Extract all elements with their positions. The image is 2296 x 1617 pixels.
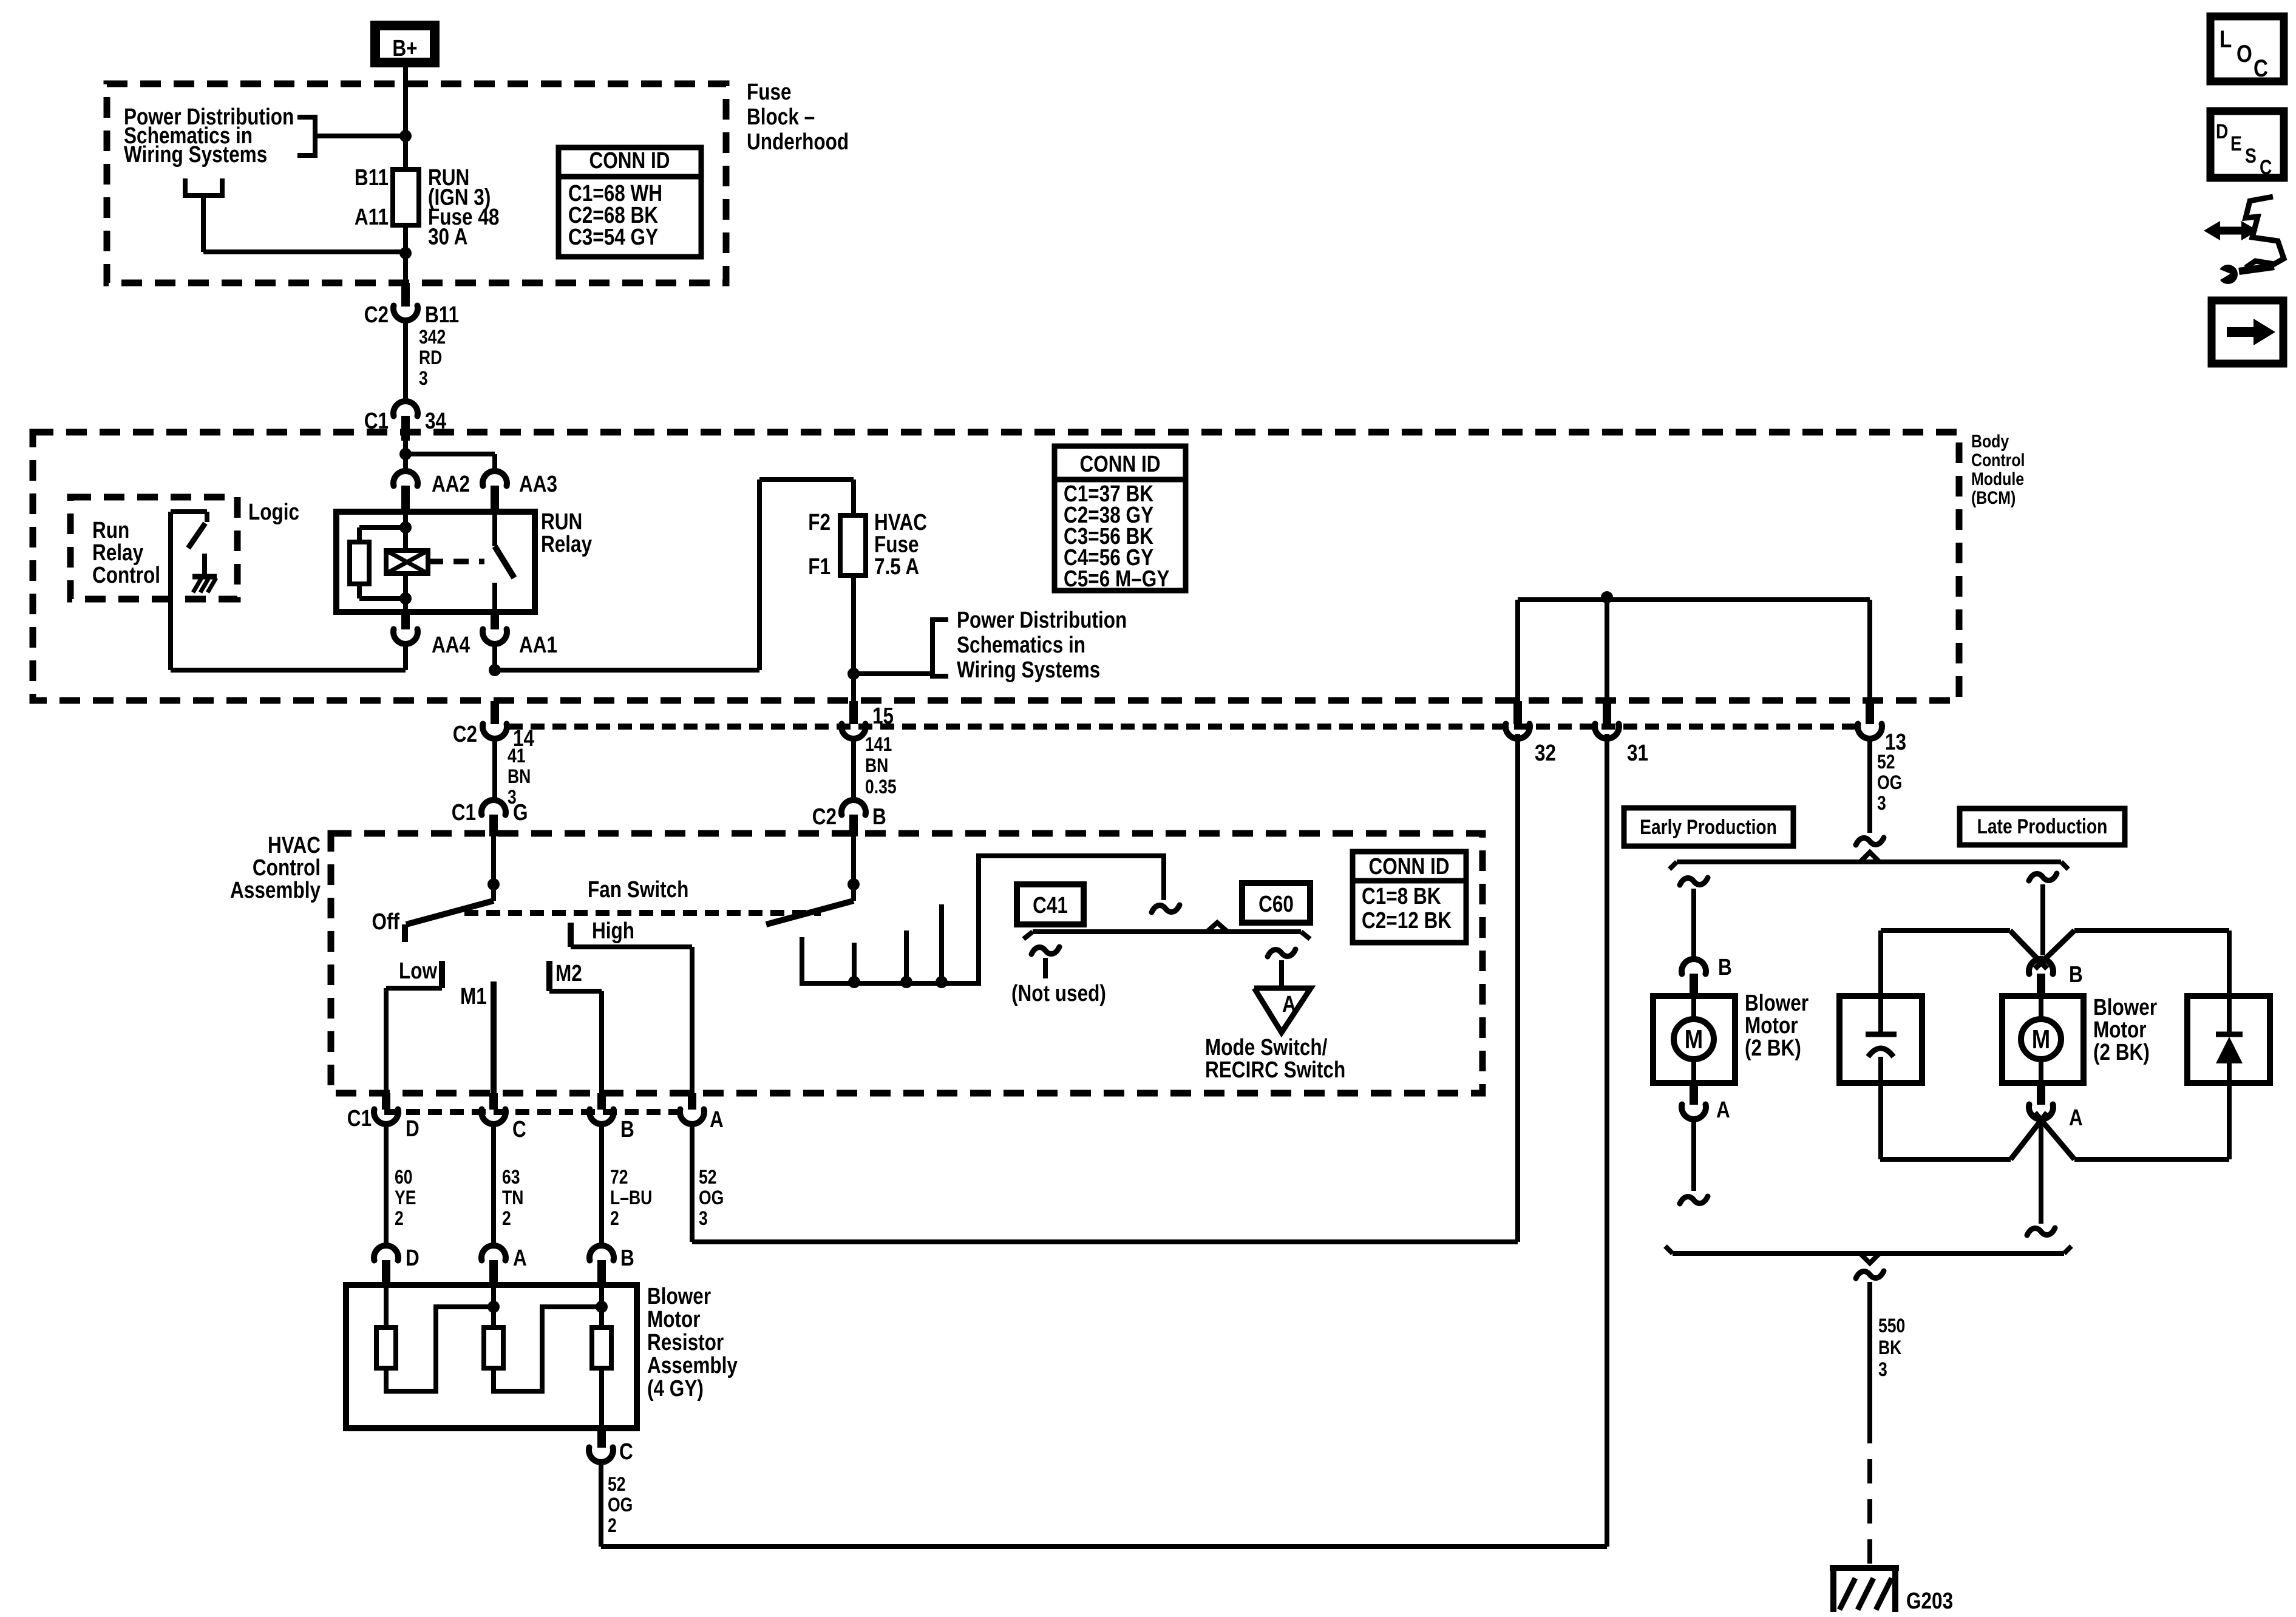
svg-text:3: 3 [699, 1208, 708, 1230]
svg-text:D: D [406, 1245, 419, 1270]
svg-text:A: A [1716, 1097, 1730, 1122]
capacitor box (noise suppressor) [1839, 996, 1922, 1083]
run relay box [336, 512, 535, 612]
svg-text:Resistor: Resistor [647, 1329, 724, 1355]
svg-text:L: L [2220, 25, 2232, 53]
connector C1 terminal C [481, 1093, 506, 1124]
wire late A crossover [1880, 1113, 2229, 1159]
pin label C2 (B11 connector) [364, 302, 389, 327]
svg-text:C41: C41 [1033, 892, 1068, 918]
label RUN (IGN 3) Fuse 48 30 A [428, 164, 499, 249]
pin label 13 [1885, 729, 1906, 754]
wire label 52 OG 3 (pin A) [699, 1167, 724, 1230]
svg-text:F1: F1 [808, 554, 830, 579]
svg-text:C2=12 BK: C2=12 BK [1362, 907, 1452, 933]
wire label 52 OG 2 [608, 1474, 633, 1537]
label Fan Switch [588, 876, 688, 902]
svg-text:15: 15 [872, 703, 894, 728]
svg-text:C3=54 GY: C3=54 GY [568, 224, 658, 249]
wire capacitor bottom [1878, 1057, 1883, 1159]
wire coil bottom [403, 574, 408, 612]
relay switch blade (open) [495, 546, 514, 578]
relay switch contact AA3 side [492, 513, 497, 546]
connector C1 terminal A [680, 1093, 704, 1124]
svg-text:(2 BK): (2 BK) [1745, 1035, 1801, 1060]
pin label 15 [872, 703, 894, 728]
pigtail mode switch [1268, 949, 1296, 986]
pin label 32 [1535, 740, 1556, 765]
svg-text:C: C [2260, 156, 2272, 179]
connector terminal 31 [1595, 701, 1619, 739]
wire branch to AA3 [406, 454, 495, 469]
svg-text:Assembly: Assembly [230, 877, 321, 903]
label Blower Motor (2 BK) early [1745, 990, 1809, 1060]
pin label F2 [808, 509, 830, 535]
wire logic to AA4 [171, 644, 406, 670]
wire AA2 to relay coil [403, 513, 408, 551]
pin label B (late motor) [2069, 961, 2083, 987]
svg-text:B11: B11 [425, 302, 459, 327]
label Blower Motor Resistor Assembly (4 GY) [647, 1283, 738, 1401]
contact Low [439, 961, 445, 988]
svg-text:C1: C1 [452, 799, 476, 825]
svg-text:TN: TN [502, 1187, 523, 1209]
label Fuse Block - Underhood [747, 79, 849, 154]
connector terminal 32 [1506, 701, 1530, 739]
node junction AA1 branch [489, 664, 501, 676]
svg-text:C5=6 M–GY: C5=6 M–GY [1064, 566, 1169, 591]
wire label 41 BN 3 [508, 745, 531, 808]
svg-text:3: 3 [1877, 793, 1886, 815]
svg-text:(4 GY): (4 GY) [647, 1375, 704, 1401]
wire break tilde (ground collector) [1856, 1271, 1884, 1278]
label Off [372, 909, 399, 934]
relay actuation dashed link [428, 559, 484, 564]
connector terminal B (resistor) [589, 1246, 614, 1285]
node junction B+ feed [399, 130, 412, 142]
wire break tilde (late motor ground) [2027, 1228, 2055, 1235]
label Blower Motor (2 BK) late [2093, 994, 2157, 1065]
svg-text:A: A [1282, 991, 1296, 1017]
svg-text:A: A [2069, 1105, 2083, 1130]
node junction relay feed [399, 448, 412, 460]
fuse HVAC 7.5A [840, 515, 866, 575]
svg-text:D: D [2216, 120, 2228, 143]
connector tag C41 [1017, 884, 1084, 924]
svg-text:52: 52 [699, 1167, 717, 1188]
svg-text:B: B [1718, 954, 1732, 980]
connector C2 cavity B11 (fuse block side) [393, 283, 418, 320]
svg-text:52: 52 [608, 1474, 626, 1496]
pigtail not used [1031, 947, 1059, 978]
svg-text:Motor: Motor [647, 1306, 701, 1332]
fan switch pole 1 blade [406, 901, 494, 924]
icon vehicle service (arrow and wrench) [2204, 197, 2284, 284]
pin label C1 (hvac) [347, 1105, 372, 1131]
fan switch dashed position line [464, 910, 821, 916]
connector terminal B (early motor) [1682, 959, 1706, 996]
pin label A (hvac) [710, 1107, 724, 1132]
connector terminal 13 [1858, 701, 1882, 739]
resistor R3 (med2) [592, 1285, 611, 1428]
pin label C2 (14) [453, 721, 477, 747]
svg-text:M: M [2032, 1024, 2050, 1054]
pin label A (late motor) [2069, 1105, 2083, 1130]
svg-text:550: 550 [1878, 1315, 1905, 1337]
motor symbol M (early) [1674, 996, 1714, 1083]
ground symbol (logic) [192, 554, 217, 592]
connector terminal A (early motor) [1682, 1083, 1706, 1119]
wire 63 TN 2 [491, 1124, 496, 1246]
svg-text:CONN ID: CONN ID [589, 147, 670, 173]
label High [592, 918, 634, 943]
svg-text:Blower: Blower [647, 1283, 711, 1309]
bracket to power distribution schematics (top) [297, 117, 406, 155]
svg-text:Off: Off [372, 909, 399, 934]
svg-text:AA2: AA2 [432, 471, 470, 497]
svg-text:Assembly: Assembly [647, 1352, 738, 1378]
svg-text:Module: Module [1971, 469, 2024, 489]
svg-text:OG: OG [699, 1187, 724, 1209]
fan switch 2 position comb [802, 856, 1164, 988]
svg-text:60: 60 [395, 1167, 413, 1188]
wire 52 OG 3 from pin 13 [1867, 739, 1872, 833]
hvac connector row dotted line [384, 1109, 678, 1115]
svg-text:Fuse: Fuse [747, 79, 792, 104]
wire 34 into BCM [403, 441, 408, 469]
contact M1 wire to pin C [491, 981, 497, 1095]
svg-text:RECIRC Switch: RECIRC Switch [1205, 1057, 1345, 1082]
relay coil suppression resistor [350, 527, 406, 598]
blower motor box (early) [1653, 996, 1735, 1083]
connector C2 terminal 14 [483, 701, 507, 739]
svg-text:F2: F2 [808, 509, 830, 535]
svg-text:(2 BK): (2 BK) [2093, 1039, 2150, 1065]
node junction coil top [399, 521, 412, 534]
wire 550 BK 3 dashed continuation [1867, 1419, 1872, 1565]
label (Not used) [1011, 980, 1106, 1006]
label RUN Relay [541, 509, 593, 557]
wire AA1 down [492, 644, 497, 670]
svg-text:3: 3 [419, 368, 428, 390]
svg-text:AA3: AA3 [519, 471, 557, 497]
node junction pin 31 bus [1601, 591, 1613, 603]
svg-text:YE: YE [395, 1187, 416, 1209]
label M1 [460, 983, 487, 1009]
svg-text:2: 2 [608, 1515, 617, 1537]
table CONN ID (BCM) [1055, 446, 1186, 592]
connector terminal B (late motor) [2029, 959, 2053, 996]
wire AA1 to HVAC fuse [495, 480, 854, 670]
pin label D [406, 1116, 419, 1141]
logic switch (run relay control) [171, 512, 207, 670]
svg-text:Relay: Relay [541, 531, 593, 557]
svg-text:B: B [620, 1116, 634, 1142]
svg-text:Control: Control [1971, 450, 2025, 470]
svg-text:M2: M2 [555, 960, 582, 986]
svg-text:2: 2 [502, 1208, 511, 1230]
svg-text:S: S [2245, 144, 2257, 168]
svg-text:BK: BK [1878, 1337, 1901, 1359]
node junction coil bottom [399, 592, 412, 605]
svg-text:Underhood: Underhood [747, 129, 849, 154]
connector AA3 (run relay) [483, 471, 507, 513]
svg-text:30 A: 30 A [428, 224, 467, 249]
tag Early Production [1624, 808, 1793, 846]
svg-text:B11: B11 [355, 164, 389, 190]
ground G203 symbol [1830, 1565, 1899, 1612]
resistor R1 (low) [376, 1285, 494, 1391]
svg-text:41: 41 [508, 745, 526, 767]
connector terminal C (resistor out) [589, 1428, 613, 1462]
svg-text:High: High [592, 918, 634, 943]
svg-text:CONN ID: CONN ID [1079, 451, 1160, 476]
svg-text:0.35: 0.35 [865, 776, 897, 798]
wire label 63 TN 2 [502, 1167, 523, 1230]
pin label AA2 [432, 471, 470, 497]
svg-text:OG: OG [608, 1494, 633, 1516]
connector C2 terminal 15 [841, 701, 866, 739]
svg-text:Fan Switch: Fan Switch [588, 876, 688, 902]
wire M2 to pin B [549, 991, 602, 1095]
wire early motor ground [1691, 1119, 1696, 1191]
svg-text:Power Distribution: Power Distribution [957, 607, 1127, 632]
label M2 [555, 960, 582, 986]
svg-text:7.5 A: 7.5 A [874, 554, 919, 579]
pin label C (resistor out) [619, 1439, 633, 1464]
pin label G [513, 799, 528, 825]
fan switch pole 2 blade [766, 901, 854, 924]
svg-text:M: M [1685, 1024, 1703, 1054]
label Power Distribution Schematics in Wiring Systems (fuse block) [124, 104, 294, 167]
label Run Relay Control [92, 517, 160, 588]
capacitor symbol [1866, 1034, 1897, 1057]
connector tag C60 [1242, 883, 1310, 923]
wire label 52 OG 3 (pin 13) [1877, 751, 1902, 815]
label Low [399, 958, 438, 983]
svg-text:B: B [620, 1245, 634, 1270]
wire B+ to fuse B11 [403, 67, 408, 169]
wire label 60 YE 2 [395, 1167, 416, 1230]
wire 72 L-BU 2 [599, 1124, 604, 1246]
svg-text:2: 2 [395, 1208, 404, 1230]
svg-text:32: 32 [1535, 740, 1556, 765]
svg-text:342: 342 [419, 327, 446, 348]
svg-text:(BCM): (BCM) [1971, 487, 2016, 508]
svg-text:AA4: AA4 [432, 632, 470, 657]
BCM connector row dotted line [509, 724, 1856, 730]
svg-text:Control: Control [92, 562, 160, 588]
wire label 342 RD 3 [419, 327, 446, 390]
wire B into fan switch 2 [851, 836, 856, 901]
svg-text:3: 3 [1878, 1359, 1887, 1381]
node junction fan switch 1 [487, 878, 500, 890]
pin label AA4 [432, 632, 470, 657]
connector terminal D (resistor) [374, 1246, 398, 1285]
fuse block underhood dashed box [107, 84, 726, 283]
svg-text:Low: Low [399, 958, 438, 983]
svg-text:Wiring Systems: Wiring Systems [124, 141, 267, 167]
wire G into fan switch [491, 836, 496, 901]
hvac control assembly dashed box [331, 833, 1483, 1093]
wire HVAC fuse output [851, 575, 856, 701]
node junction fan switch 2 [847, 878, 860, 890]
ground label G203 [1906, 1588, 1953, 1613]
pigtail late production feed [2029, 873, 2057, 955]
wire 52 OG 2 [599, 1462, 603, 1547]
contact High [568, 923, 574, 947]
pin label 31 [1627, 740, 1648, 765]
svg-text:D: D [406, 1116, 419, 1141]
wire 141 BN 0.35 [851, 739, 856, 800]
svg-text:A: A [513, 1245, 527, 1270]
svg-text:C2: C2 [812, 804, 837, 829]
wire break tilde (early motor ground) [1680, 1196, 1708, 1204]
wire diode bottom [2227, 1063, 2232, 1159]
wire 41 BN 3 [492, 739, 497, 800]
power symbol B+ (battery positive) [375, 25, 435, 63]
svg-text:CONN ID: CONN ID [1368, 853, 1449, 879]
svg-text:141: 141 [865, 734, 892, 756]
svg-text:Block –: Block – [747, 104, 815, 129]
svg-text:B+: B+ [392, 35, 417, 61]
blower motor box (late) [2002, 996, 2084, 1083]
svg-text:2: 2 [610, 1208, 619, 1230]
pin label AA1 [519, 632, 557, 657]
contact Off [402, 924, 408, 942]
wire late motor ground [2039, 1120, 2043, 1224]
pin label D (resistor) [406, 1245, 419, 1270]
pin label F1 [808, 554, 830, 579]
table CONN ID (fuse block) [559, 147, 701, 257]
resistor R2 (med1) [484, 1285, 602, 1391]
pin label 34 [425, 408, 447, 433]
fuse RUN (IGN 3) Fuse 48 30A [393, 169, 419, 225]
label Power Distribution Schematics in Wiring Systems (BCM) [957, 607, 1127, 682]
label HVAC Control Assembly [230, 832, 321, 903]
wire 342 RD 3 [403, 320, 408, 401]
wire diode top [2227, 931, 2232, 1032]
pin label B11 (connector) [425, 302, 459, 327]
svg-text:B: B [2069, 961, 2083, 987]
svg-text:Wiring Systems: Wiring Systems [957, 657, 1100, 682]
bracket to power distribution schematics (bottom) [185, 178, 406, 252]
wire Low to pin D [386, 988, 442, 1095]
pin label B (fan switch) [872, 804, 886, 829]
pin label A (resistor) [513, 1245, 527, 1270]
wire 550 BK 3 [1867, 1282, 1872, 1419]
svg-text:AA1: AA1 [519, 632, 557, 657]
pin label A11 [355, 204, 389, 229]
wire BCM output bus [1518, 600, 1870, 701]
node junction fuse input [399, 247, 412, 259]
connector terminal A (resistor) [481, 1246, 506, 1285]
svg-text:C2: C2 [453, 721, 477, 747]
svg-text:C: C [2254, 55, 2268, 82]
bracket to power distribution schematics (BCM) [854, 620, 948, 676]
wire break tilde (52 OG 3 feed) [1856, 838, 1884, 845]
relay switch contact AA1 side [492, 583, 497, 612]
svg-text:G: G [513, 799, 528, 825]
wire break tilde (fan switch comb) [1152, 905, 1180, 912]
connector terminal A (late motor) [2029, 1083, 2053, 1119]
svg-text:M1: M1 [460, 983, 487, 1009]
svg-text:C1: C1 [347, 1105, 372, 1131]
pigtail early production feed [1680, 878, 1708, 957]
pin label C [512, 1116, 526, 1142]
svg-text:O: O [2237, 40, 2252, 67]
pin label A (early motor) [1716, 1097, 1730, 1122]
svg-text:L–BU: L–BU [610, 1187, 652, 1209]
motor symbol M (late) [2021, 996, 2061, 1083]
svg-text:C: C [619, 1439, 633, 1464]
svg-text:RD: RD [419, 347, 442, 369]
svg-text:63: 63 [502, 1167, 520, 1188]
body control module dashed box [33, 432, 1959, 700]
svg-text:OG: OG [1877, 772, 1902, 794]
wire High to pin A [571, 947, 692, 1095]
pin label B11 [355, 164, 389, 190]
svg-text:72: 72 [610, 1167, 628, 1188]
brace C41 to C60 [1024, 923, 1310, 939]
label HVAC Fuse 7.5 A [874, 509, 927, 579]
pin label B (resistor) [620, 1245, 634, 1270]
relay coil (box with X) [386, 551, 428, 574]
contact M2 [546, 961, 552, 991]
wire fuse A11 to connector C2 B11 [403, 225, 408, 284]
svg-text:B: B [872, 804, 886, 829]
pin label AA3 [519, 471, 557, 497]
svg-text:A11: A11 [355, 204, 389, 229]
pin label B (hvac) [620, 1116, 634, 1142]
blower motor resistor assembly box [346, 1285, 637, 1428]
svg-text:Early Production: Early Production [1640, 816, 1777, 839]
svg-text:BN: BN [508, 766, 531, 788]
icon DESC box [2210, 111, 2284, 179]
pin label C2 (B) [812, 804, 837, 829]
table CONN ID (HVAC) [1353, 852, 1466, 943]
svg-text:Logic: Logic [248, 499, 299, 524]
svg-text:(Not used): (Not used) [1011, 980, 1106, 1006]
connector C1 terminal D [374, 1093, 398, 1124]
wire label 550 BK 3 [1878, 1315, 1905, 1381]
wire BCM 31 to resistor output [601, 734, 1607, 1547]
svg-text:Body: Body [1971, 431, 2009, 452]
svg-text:C2: C2 [364, 302, 389, 327]
diode symbol [2216, 1034, 2243, 1063]
svg-text:A: A [710, 1107, 724, 1132]
label Logic [248, 499, 299, 524]
svg-text:C: C [512, 1116, 526, 1142]
wire 60 YE 2 [384, 1124, 389, 1246]
pin label C1 (34 connector) [364, 408, 389, 433]
svg-text:C60: C60 [1258, 891, 1294, 917]
label Mode Switch / RECIRC Switch [1205, 1034, 1345, 1082]
svg-text:31: 31 [1627, 740, 1648, 765]
node junction fuse output [847, 668, 860, 680]
diode box [2187, 996, 2270, 1083]
icon LOC box [2210, 16, 2284, 82]
connector C1 terminal G [481, 800, 506, 836]
brace early/late production feed [1669, 852, 2068, 869]
connector C1 terminal 34 (BCM side) [393, 401, 418, 441]
triangle connector A (mode switch) [1254, 988, 1311, 1032]
svg-text:BN: BN [865, 755, 888, 777]
wire capacitor top [1878, 931, 1883, 1032]
run relay control dashed box [70, 497, 237, 599]
svg-text:Late Production: Late Production [1977, 815, 2108, 838]
wire label 141 BN 0.35 [865, 734, 897, 798]
